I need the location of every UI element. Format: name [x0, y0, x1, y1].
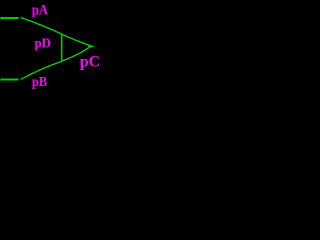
svg-text:pC: pC	[80, 53, 100, 70]
pin stub pA	[1, 17, 19, 19]
pin stub pB	[1, 78, 19, 80]
svg-text:pA: pA	[32, 3, 48, 19]
wire pB to amp input	[21, 61, 62, 79]
amplifier U1 bottom edge	[62, 48, 88, 61]
arrowhead at output node pC	[88, 44, 95, 48]
circuit schematic: buffer/amplifier with ports pA pB pC pD	[0, 0, 101, 91]
wire pA to amp input	[21, 18, 62, 35]
amplifier U1 top edge	[62, 34, 88, 45]
svg-text:pB: pB	[32, 74, 47, 89]
svg-text:pD: pD	[35, 36, 51, 51]
amplifier U1 left side	[61, 34, 63, 61]
